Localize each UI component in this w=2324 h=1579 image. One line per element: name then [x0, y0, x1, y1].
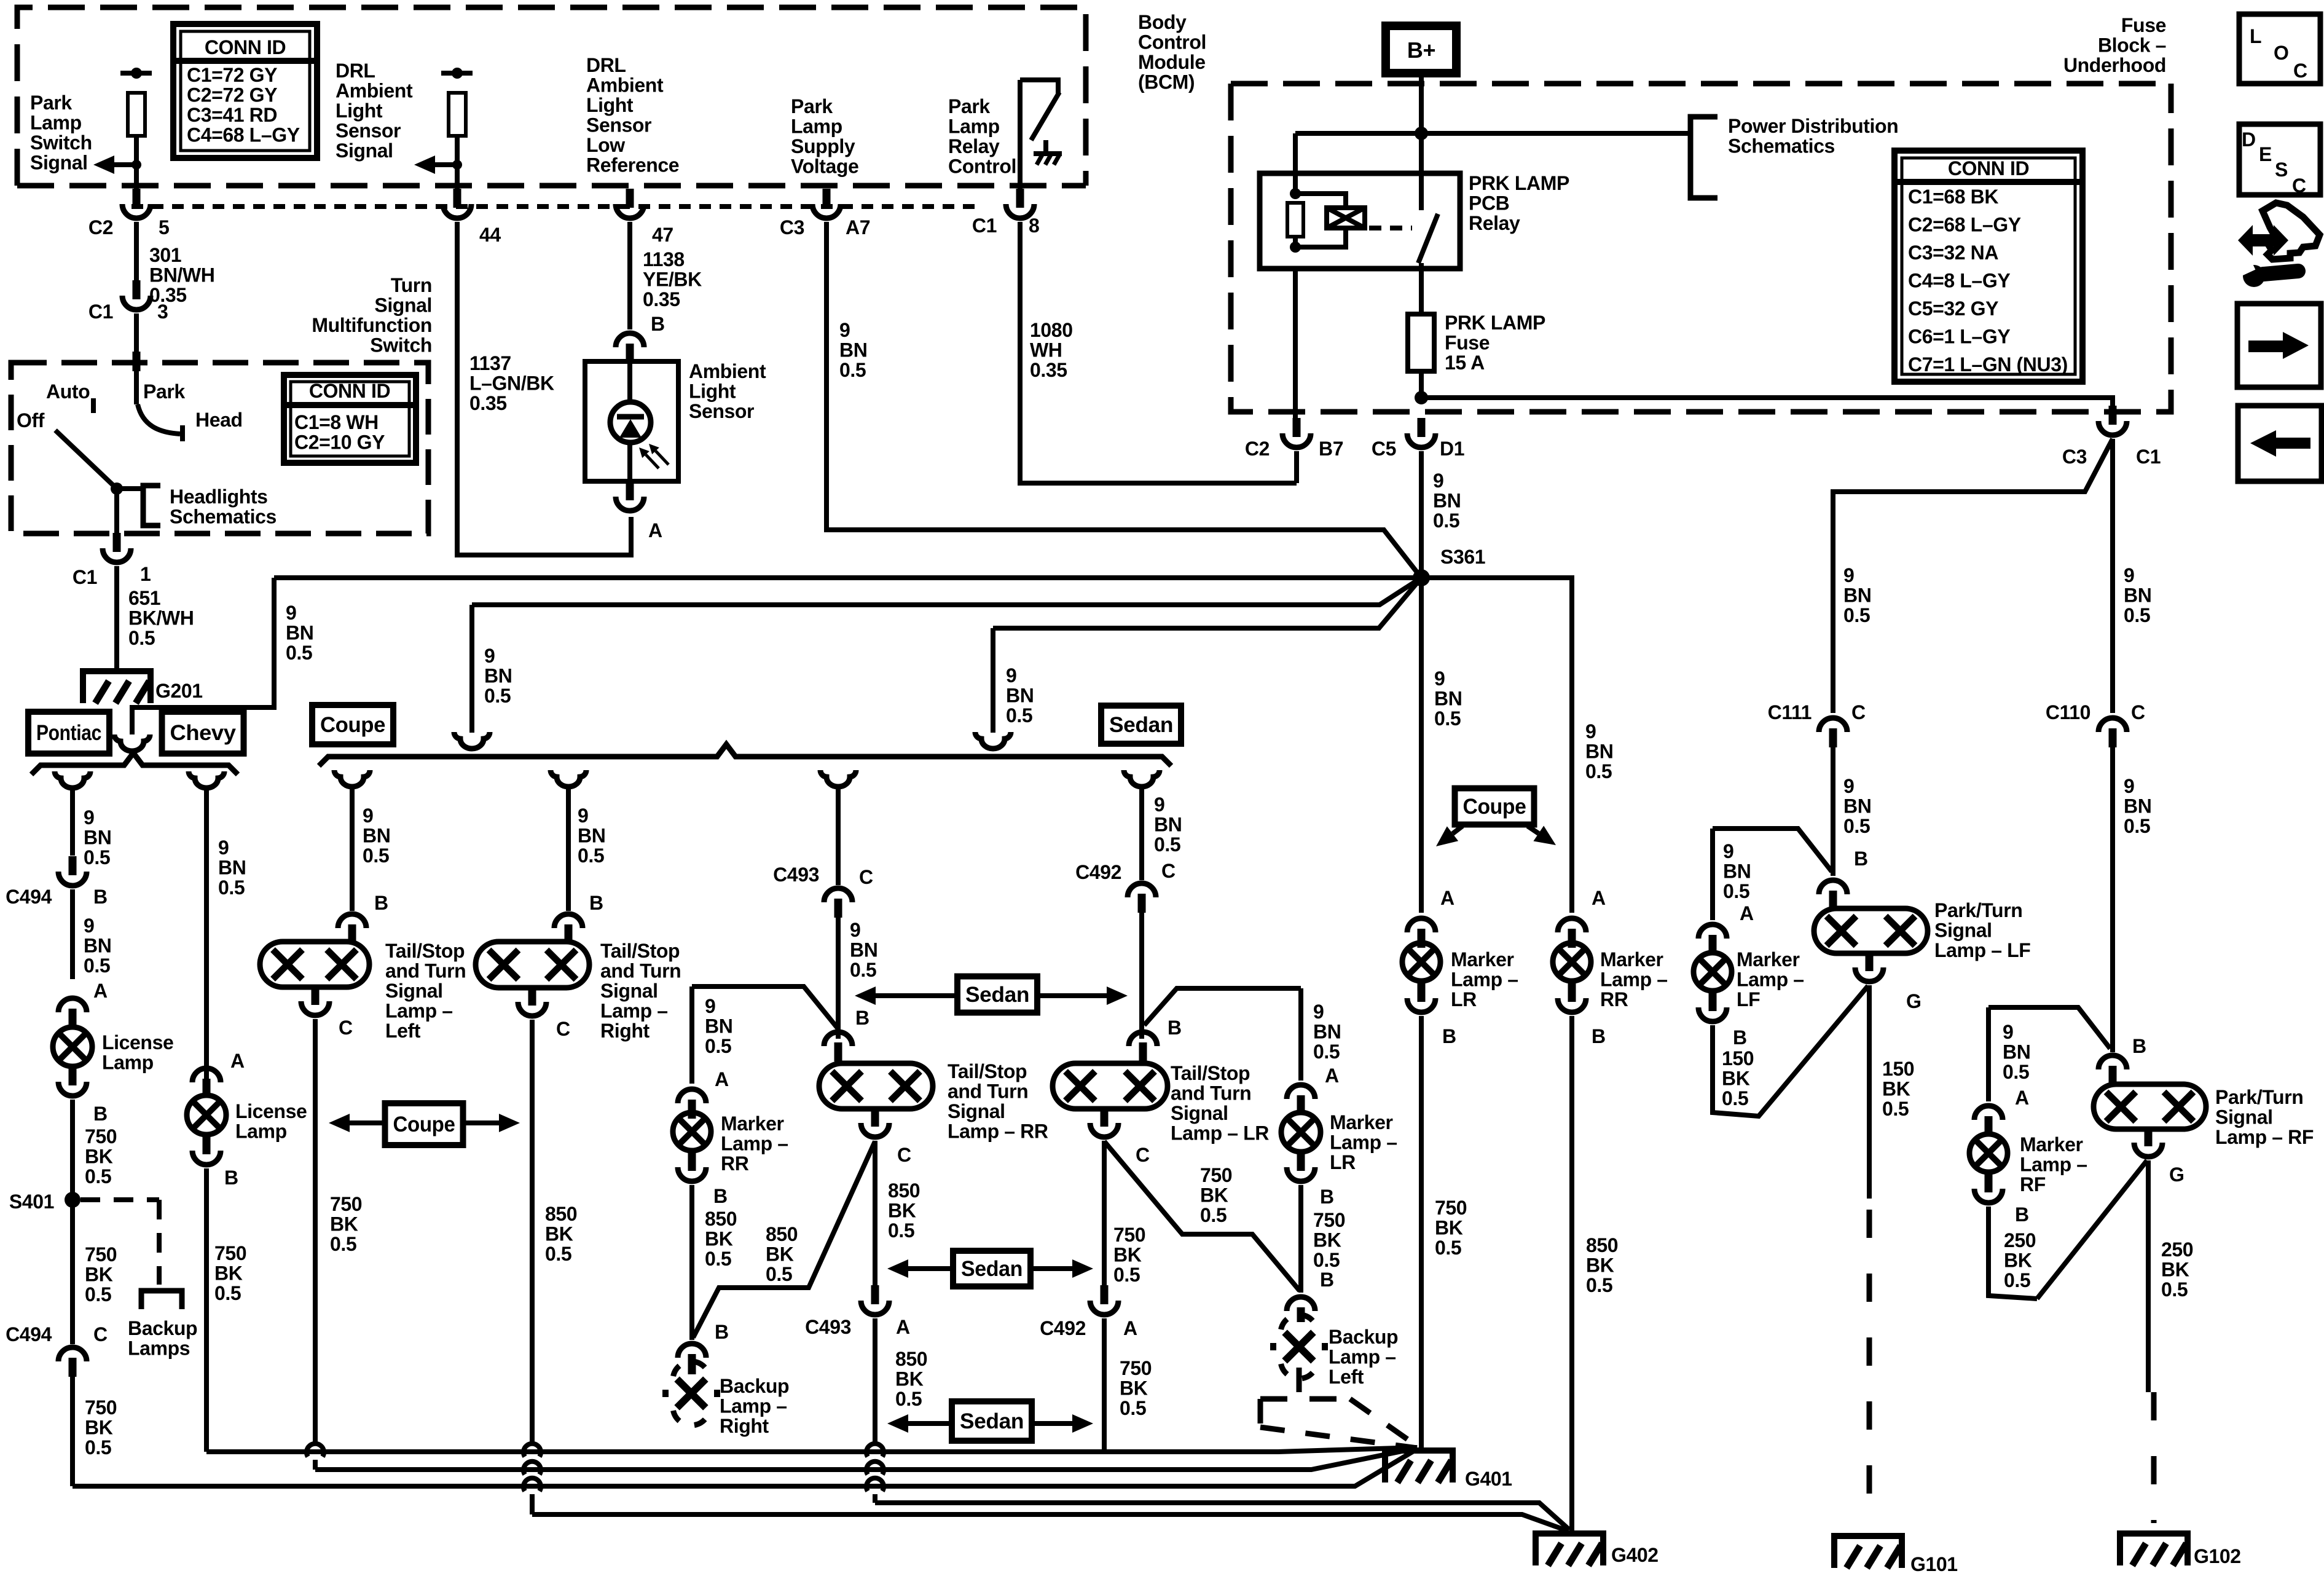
connector B of license lamp (Chevy) — [203, 1135, 211, 1154]
svg-text:Coupe: Coupe — [1463, 795, 1526, 819]
svg-text:G: G — [1906, 990, 1922, 1012]
wire C494-C to ground bus — [70, 1377, 75, 1486]
svg-text:C: C — [339, 1017, 353, 1039]
svg-text:C110: C110 — [2046, 701, 2090, 723]
wire junction to right connector C3/C1 — [1421, 398, 2113, 406]
svg-text:C1=8 WHC2=10 GY: C1=8 WHC2=10 GY — [294, 411, 385, 454]
resistor in BCM DRL sensor signal — [449, 93, 466, 136]
svg-text:A: A — [93, 980, 108, 1002]
connector B of park/turn signal lamp LF — [1819, 880, 1847, 894]
connector C2 pin B7 — [1293, 418, 1301, 437]
connector B of backup lamp left — [1287, 1297, 1315, 1311]
connector B of backup lamp right — [678, 1344, 706, 1358]
ground G401 — [1385, 1451, 1453, 1483]
headlamp switch arc track — [138, 404, 180, 434]
PRK LAMP fuse — [1408, 314, 1434, 371]
fuse block underhood dashed box — [1231, 81, 2171, 87]
connector C5 pin D1 — [1418, 418, 1426, 437]
power distribution bracket — [1690, 117, 1717, 198]
splice S401 — [65, 1192, 80, 1208]
svg-text:44: 44 — [479, 224, 501, 246]
connector C493 cavity A — [871, 1285, 879, 1304]
svg-text:C: C — [556, 1018, 570, 1040]
connector B of tail lamp right — [554, 914, 583, 928]
svg-text:C493: C493 — [805, 1316, 851, 1338]
connector C of tail lamp LR — [1101, 1108, 1109, 1127]
svg-text:C494: C494 — [6, 886, 52, 908]
wire S361 right branch — [1421, 578, 1572, 913]
svg-text:C1: C1 — [2136, 446, 2161, 468]
wire marker LF ground to G wire — [1713, 986, 1868, 1116]
BCM internal terminal bar for DRL sensor signal — [441, 71, 473, 76]
connector A of marker lamp LR sedan — [1287, 1085, 1315, 1099]
Chevy label box — [162, 712, 244, 754]
ground bus 3 (750 BK) — [73, 1449, 1418, 1486]
connector C of tail lamp left — [312, 986, 320, 1005]
svg-text:A7: A7 — [846, 216, 870, 238]
wire to marker lamp RR sedan — [689, 986, 694, 1084]
svg-text:B: B — [1854, 848, 1868, 870]
wire 750 BK marker LR coupe to G401 — [1419, 1016, 1424, 1451]
feed loop coupe brace left — [454, 732, 490, 749]
branch 850 BK to backup lamp right ground — [693, 1141, 875, 1337]
Pontiac label box — [28, 712, 109, 754]
svg-text:C1: C1 — [88, 301, 113, 323]
svg-text:C493: C493 — [773, 864, 819, 886]
svg-text:C: C — [2292, 175, 2306, 197]
park/turn signal lamp - RF — [2094, 1084, 2206, 1129]
marker LR feed from tail LR B node — [1144, 988, 1301, 1025]
connector A of marker lamp RR sedan — [678, 1089, 706, 1103]
connector B of marker lamp RF — [1985, 1173, 1993, 1192]
sedan arrow row 2 — [953, 1251, 1030, 1286]
svg-text:Coupe: Coupe — [393, 1112, 455, 1136]
headlamp switch dashed box — [11, 363, 428, 534]
svg-text:A: A — [1123, 1317, 1137, 1339]
wire 1138 YE/BK — [627, 222, 632, 329]
svg-text:L: L — [2250, 25, 2261, 47]
connector pin 44 — [453, 189, 461, 208]
connector C110 cavity C — [2098, 718, 2127, 732]
svg-text:C: C — [897, 1144, 911, 1166]
license lamp (Pontiac) — [53, 1027, 92, 1066]
ground G201 — [83, 671, 151, 703]
wire D1 to splice S361 — [1419, 451, 1424, 578]
wire drop to C493 — [836, 786, 841, 885]
connector B of tail lamp LR — [1129, 1032, 1157, 1046]
PRK LAMP PCB relay box — [1260, 173, 1460, 269]
photodiode symbol — [610, 402, 651, 443]
backup lamp - left — [1285, 1333, 1314, 1361]
wire junction to relay switch — [1419, 133, 1424, 173]
wire to power distribution bracket — [1421, 131, 1690, 136]
wire 150 BK G to G101 — [1867, 985, 1872, 1199]
svg-text:A: A — [1440, 887, 1454, 909]
svg-text:S: S — [2275, 159, 2288, 181]
connector pin 47 — [626, 189, 634, 208]
svg-text:C1: C1 — [972, 215, 997, 237]
connector C1 pin 1 — [113, 533, 121, 552]
dashed backup left to bundle — [1297, 1368, 1302, 1396]
BCM relay driver symbol — [1020, 80, 1058, 93]
wire S361 down to marker LR — [1419, 578, 1424, 913]
wire 9 BN feed for coupe brace left — [472, 578, 1421, 605]
connector A of license lamp (Pontiac) — [58, 998, 87, 1012]
drop loop license lamp right — [189, 771, 224, 788]
relay coil branch top node — [1290, 188, 1301, 199]
drop loop tail lamp right — [551, 770, 586, 787]
svg-text:B: B — [1442, 1025, 1456, 1047]
branch to marker lamp RF — [1988, 1007, 2110, 1049]
svg-text:C1: C1 — [73, 566, 97, 588]
svg-text:B: B — [1733, 1026, 1747, 1049]
wire 750 BK tail left to ground bus — [313, 1019, 318, 1444]
dashed diagonal to G401 (b) — [1350, 1399, 1418, 1447]
tail/stop and turn signal lamp - left — [260, 942, 369, 987]
tail/stop and turn signal lamp - LR — [1053, 1063, 1168, 1109]
svg-text:B: B — [651, 313, 665, 335]
wire driver to pin 8 — [1018, 80, 1023, 189]
connector G of park/turn LF — [1866, 952, 1874, 971]
wire 9 BN corner to Pontiac/Chevy brace — [132, 578, 274, 734]
connector C493 cavity C — [824, 888, 852, 902]
svg-text:B: B — [715, 1321, 729, 1343]
wire C493 to tail RR B — [836, 918, 841, 1039]
connector A of license lamp (Chevy) — [192, 1068, 221, 1082]
wire C111 to park/turn LF — [1831, 746, 1835, 876]
tail/stop and turn signal lamp - right — [476, 942, 589, 988]
sedan arrow row 3 — [952, 1401, 1032, 1441]
wire drop to C494-B — [70, 787, 75, 856]
connector B of marker lamp RR sedan — [688, 1152, 696, 1171]
light arrows into sensor — [656, 451, 669, 465]
ground bus 2 (750 BK) — [315, 1448, 1417, 1470]
wire C3/C1 to C110 branch — [2110, 439, 2115, 713]
svg-text:A: A — [896, 1316, 910, 1338]
junction below fuse — [1415, 391, 1428, 404]
svg-text:C: C — [93, 1323, 108, 1345]
junction of B+ feed — [1415, 127, 1428, 140]
svg-text:C: C — [2131, 701, 2145, 723]
coupe arrow box (tail lamps) — [385, 1103, 463, 1145]
next-page arrow icon box — [2237, 304, 2321, 387]
svg-text:B: B — [1168, 1017, 1182, 1039]
connector B of tail lamp left — [338, 914, 366, 928]
relay switch contact — [1419, 173, 1424, 210]
wire 850 BK marker RR coupe to G402 — [1569, 1016, 1574, 1532]
sedan arrow row 1 — [957, 977, 1037, 1013]
svg-text:G201: G201 — [155, 680, 203, 702]
ground bus 5 (850 BK) to G402 — [532, 1514, 1568, 1531]
connector A of ambient light sensor — [626, 481, 634, 500]
svg-text:G: G — [2169, 1164, 2185, 1186]
wire 750 BK marker LR to backup left — [1298, 1185, 1303, 1293]
svg-text:Coupe: Coupe — [320, 713, 385, 737]
splice S361 — [1413, 569, 1430, 586]
svg-text:Pontiac: Pontiac — [36, 721, 101, 745]
wire into headlamp switch — [134, 313, 139, 353]
svg-text:B: B — [2015, 1203, 2029, 1226]
drop loop C493 — [820, 770, 856, 787]
connector C3 / C1 at fuse block right — [2109, 406, 2117, 425]
svg-text:C2: C2 — [1245, 438, 1270, 460]
backup lamp - right — [677, 1379, 706, 1408]
connector B of park/turn signal lamp RF — [2098, 1055, 2127, 1069]
svg-text:B: B — [2132, 1035, 2146, 1057]
ground bus 1 (750 BK) — [206, 1447, 1417, 1452]
svg-text:E: E — [2259, 143, 2272, 165]
drop loop tail lamp left — [334, 770, 370, 787]
wire drop to license lamp right — [204, 787, 209, 1079]
drop loop C492 — [1124, 770, 1160, 787]
wire C494-B to license lamp — [70, 889, 75, 979]
tap wire to headlights schematics — [117, 486, 143, 491]
wire marker RF ground to G wire — [1988, 1207, 2037, 1299]
headlamp switch Auto position tick — [91, 398, 96, 413]
svg-text:Sedan: Sedan — [961, 1257, 1023, 1281]
feed loop at Pontiac/Chevy brace — [114, 734, 150, 751]
wrench navigation icon — [2238, 225, 2269, 256]
svg-text:Sedan: Sedan — [1109, 713, 1173, 737]
svg-text:C: C — [1136, 1144, 1150, 1166]
headlamp switch Head position tick — [180, 425, 185, 441]
svg-text:BackupLamps: BackupLamps — [128, 1317, 197, 1360]
park/turn signal lamp - LF — [1814, 908, 1928, 953]
svg-text:S401: S401 — [9, 1191, 54, 1213]
connector C of tail lamp RR — [871, 1108, 879, 1127]
tail/stop and turn signal lamp - RR — [819, 1063, 933, 1109]
BCM internal terminal bar for park lamp switch signal — [120, 71, 152, 76]
marker lamp - RF — [1969, 1134, 2008, 1172]
connector A of marker lamp RR coupe — [1558, 918, 1586, 932]
svg-text:47: 47 — [652, 224, 673, 246]
svg-text:CONN ID: CONN ID — [1948, 157, 2029, 179]
signal arrow to park lamp switch signal — [132, 160, 141, 170]
BCM connector face dotted line — [132, 204, 977, 209]
wire B7 down and left to 1080 WH — [1294, 451, 1299, 483]
svg-text:CONN ID: CONN ID — [309, 380, 390, 402]
wire C3/C1 to C111 branch — [1833, 439, 2113, 713]
resistor in BCM park lamp switch signal — [128, 93, 145, 136]
wire C493-A to ground bus 4 — [873, 1318, 877, 1444]
sensor internal wire — [627, 361, 632, 403]
wire fuse to junction — [1419, 371, 1424, 398]
wire C110 to park/turn RF — [2110, 746, 2115, 1052]
wire C492 to tail LR B — [1139, 913, 1144, 1039]
Coupe label box — [312, 705, 393, 744]
svg-text:C3: C3 — [2062, 446, 2087, 468]
svg-text:CONN ID: CONN ID — [205, 36, 286, 58]
wire 651 BK/WH to G201 — [114, 566, 119, 671]
signal arrow DRL sensor signal — [452, 160, 462, 170]
svg-text:G101: G101 — [1910, 1553, 1958, 1575]
svg-text:Head: Head — [195, 409, 243, 431]
connector C492 cavity A — [1101, 1285, 1109, 1304]
DESC icon box — [2239, 124, 2320, 195]
LOC icon box — [2239, 14, 2320, 84]
relay coil parallel wiring — [1295, 194, 1346, 208]
coupe arrow box (marker lamps) — [1455, 789, 1534, 825]
svg-text:A: A — [715, 1068, 729, 1090]
wire BCM resistor to connector C2-5 — [134, 136, 139, 189]
svg-text:G401: G401 — [1465, 1468, 1512, 1490]
svg-text:A: A — [1325, 1065, 1339, 1087]
wire 850 BK tail right to ground bus — [530, 1020, 535, 1444]
svg-text:A: A — [1592, 887, 1606, 909]
relay coil bottom node — [1290, 242, 1301, 253]
svg-text:B: B — [855, 1007, 870, 1029]
connector C of tail lamp right — [528, 986, 536, 1006]
wire 250 BK G to G102 — [2146, 1160, 2151, 1392]
relay internal resistor — [1287, 203, 1303, 237]
connector B of tail lamp RR — [824, 1032, 852, 1046]
connector A of marker lamp LF — [1698, 924, 1727, 939]
marker lamp - RR (sedan) — [673, 1112, 711, 1151]
dashed wire to G101 — [1867, 1210, 1872, 1523]
svg-text:G402: G402 — [1611, 1544, 1659, 1566]
svg-text:A: A — [648, 519, 662, 541]
svg-text:D: D — [2242, 128, 2256, 151]
svg-text:B: B — [224, 1167, 238, 1189]
svg-text:B+: B+ — [1407, 37, 1435, 63]
branch 750 BK to backup lamp left ground — [1104, 1141, 1300, 1291]
svg-text:Auto: Auto — [46, 380, 90, 403]
svg-text:Park: Park — [143, 380, 185, 403]
diagonal marker RF ground to G — [2037, 1160, 2147, 1299]
ambient light sensor box — [585, 361, 678, 481]
dashed wire to G102 — [2151, 1392, 2157, 1523]
svg-text:C: C — [859, 866, 873, 888]
wire license lamp Chevy to ground bus — [204, 1168, 209, 1452]
svg-text:C111: C111 — [1768, 701, 1812, 723]
wire to marker lamp LR sedan — [1298, 988, 1303, 1081]
wire to connector pin 44 — [455, 136, 460, 189]
svg-text:B: B — [713, 1185, 728, 1207]
svg-text:C492: C492 — [1075, 861, 1121, 883]
marker lamp - RR (coupe) — [1553, 943, 1591, 981]
svg-text:G102: G102 — [2194, 1545, 2241, 1567]
svg-text:B: B — [93, 886, 108, 908]
headlights schematics bracket — [143, 486, 160, 526]
svg-text:Chevy: Chevy — [170, 721, 237, 745]
svg-text:Sedan: Sedan — [965, 983, 1029, 1007]
svg-text:B: B — [93, 1103, 108, 1125]
BCM bottom dashed edge — [17, 183, 1086, 189]
connector C3 pin A7 — [823, 189, 831, 208]
wire headlamp switch to connector C1-1 — [114, 489, 119, 534]
ground G402 — [1536, 1534, 1603, 1565]
connector G of park/turn RF — [2145, 1127, 2153, 1146]
connector B of marker lamp LR sedan — [1297, 1152, 1305, 1171]
marker lamp - LF — [1694, 953, 1732, 991]
svg-text:C2: C2 — [88, 216, 113, 238]
svg-text:O: O — [2274, 42, 2289, 64]
svg-text:B7: B7 — [1319, 438, 1343, 460]
svg-text:D1: D1 — [1440, 438, 1464, 460]
headlamp switch rotor wire — [134, 363, 139, 404]
wire 1137 L-GN/BK — [457, 222, 631, 555]
feed loop coupe brace right — [975, 732, 1011, 749]
connector C1 pin 8 — [1016, 189, 1024, 208]
branch to marker lamp LF — [1713, 829, 1832, 872]
wire 9 BN from G201 area to S361 — [274, 575, 1421, 580]
svg-text:C: C — [1161, 860, 1176, 882]
rear lamps brace — [319, 744, 1171, 766]
svg-text:A: A — [230, 1050, 245, 1072]
dashed bundle corner — [1258, 1399, 1263, 1427]
connector B of ambient light sensor — [616, 333, 644, 347]
svg-text:B: B — [589, 892, 603, 914]
dashed wire S401 to backup lamps — [80, 1197, 159, 1202]
connector C2 pin 5 — [133, 189, 141, 208]
previous-page arrow icon box — [2238, 406, 2322, 481]
svg-text:C: C — [2293, 60, 2307, 82]
wire relay switch to fuse — [1419, 269, 1424, 314]
wire 9 BN from A7 — [826, 222, 1421, 578]
svg-text:C5: C5 — [1372, 438, 1396, 460]
svg-text:C: C — [1851, 701, 1866, 723]
wire S401 to C494-C — [70, 1200, 75, 1344]
svg-text:HeadlightsSchematics: HeadlightsSchematics — [170, 486, 277, 528]
connector B of marker lamp RR coupe — [1568, 983, 1576, 1002]
connector C492 cavity C — [1128, 883, 1156, 897]
ground bus 4 (850 BK) to G402 — [875, 1503, 1569, 1530]
wire 301 BN/WH — [134, 222, 139, 280]
license lamp (Chevy) — [187, 1095, 226, 1135]
B+ battery feed box — [1386, 26, 1456, 73]
relay actuator dashed link — [1369, 226, 1412, 230]
Pontiac/Chevy brace — [31, 753, 238, 774]
BCM dashed box outline — [17, 7, 1086, 186]
svg-text:8: 8 — [1029, 215, 1039, 237]
svg-text:B: B — [1320, 1269, 1334, 1291]
svg-text:1: 1 — [140, 563, 151, 585]
CONN ID table (BCM) — [173, 24, 317, 158]
svg-text:Sedan: Sedan — [960, 1409, 1024, 1433]
svg-text:S361: S361 — [1440, 546, 1485, 568]
connector A of marker lamp RF — [1974, 1106, 2003, 1120]
marker RR feed from tail RR B node — [692, 986, 838, 1029]
svg-text:B: B — [1592, 1025, 1606, 1047]
svg-text:A: A — [2015, 1087, 2029, 1109]
connector C494 cavity B — [69, 856, 77, 875]
marker lamp - LR (sedan) — [1281, 1112, 1321, 1152]
svg-text:C494: C494 — [6, 1323, 52, 1345]
svg-text:5: 5 — [159, 216, 169, 238]
junction node in headlamp switch output — [111, 482, 123, 495]
wire license lamp to S401 — [70, 1100, 75, 1200]
wire drop to tail lamp right — [566, 786, 571, 911]
wire C492-A to ground bus 1 — [1102, 1318, 1107, 1452]
svg-text:A: A — [1740, 902, 1754, 924]
wire 9 BN feed for sedan brace — [993, 578, 1421, 628]
CONN ID table (headlamp switch) — [284, 375, 416, 463]
svg-text:C492: C492 — [1040, 1317, 1086, 1339]
ground G101 — [1834, 1536, 1902, 1568]
wire 850 BK tail RR to C493-A — [873, 1141, 877, 1285]
connector C494 cavity C — [58, 1347, 87, 1361]
connector B of marker lamp LR coupe — [1418, 983, 1426, 1002]
drop loop license lamp left — [55, 771, 90, 788]
wire junction to relay coil branch — [1295, 131, 1421, 136]
wire 1080 WH to relay coil — [1020, 222, 1297, 483]
marker lamp - LR (coupe) — [1402, 943, 1440, 981]
wire B+ to junction — [1419, 73, 1424, 133]
svg-text:Off: Off — [17, 409, 45, 431]
svg-text:B: B — [374, 892, 388, 914]
backup lamps bracket — [141, 1291, 182, 1309]
wire drop to tail lamp left — [350, 786, 355, 911]
